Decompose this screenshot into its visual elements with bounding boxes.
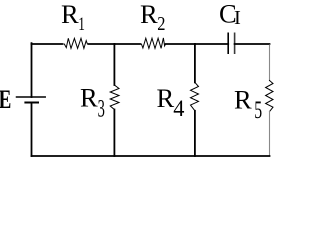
svg-text:3: 3 — [98, 96, 105, 123]
wire R3 branch bottom — [113, 110, 115, 157]
label R3 — [80, 82, 105, 122]
battery E — [17, 97, 46, 103]
wire R4 branch top — [194, 44, 196, 82]
wire top-left to R1 — [32, 42, 63, 45]
wire C1 to top-right corner — [235, 43, 270, 45]
label R1 — [61, 0, 85, 35]
label R2 — [140, 0, 165, 36]
wire bottom-left up to battery — [31, 103, 33, 157]
label E (battery) — [0, 84, 11, 114]
wire battery up to top-left corner — [31, 44, 33, 97]
resistor R5 — [266, 81, 273, 112]
svg-text:1: 1 — [78, 15, 85, 35]
label R4 — [157, 83, 185, 121]
svg-text:I: I — [234, 7, 241, 29]
wire node B to C1 — [195, 43, 228, 45]
resistor R3 — [110, 85, 119, 110]
resistor R4 — [191, 82, 199, 110]
wire R5 to bottom-right corner — [269, 112, 271, 156]
svg-text:R: R — [234, 84, 252, 114]
svg-text:R: R — [140, 0, 158, 29]
wire R4 branch bottom — [194, 111, 196, 156]
label R5 — [234, 84, 262, 124]
wire node A to R2 — [114, 43, 140, 45]
svg-text:R: R — [80, 82, 98, 112]
label C1 — [219, 0, 241, 29]
svg-text:R: R — [61, 0, 79, 29]
capacitor C1 — [228, 33, 234, 53]
svg-text:E: E — [0, 84, 11, 114]
wire R3 branch top — [113, 44, 115, 85]
resistor R2 — [140, 38, 166, 49]
svg-text:R: R — [157, 83, 175, 113]
svg-text:2: 2 — [157, 12, 165, 35]
resistor R1 — [62, 38, 89, 48]
wire R2 to node B — [166, 43, 195, 45]
bottom wire — [32, 155, 270, 157]
wire right side down to R5 — [269, 45, 271, 81]
wire R1 to node A — [89, 43, 115, 45]
svg-text:5: 5 — [254, 95, 262, 124]
svg-text:4: 4 — [173, 95, 185, 121]
